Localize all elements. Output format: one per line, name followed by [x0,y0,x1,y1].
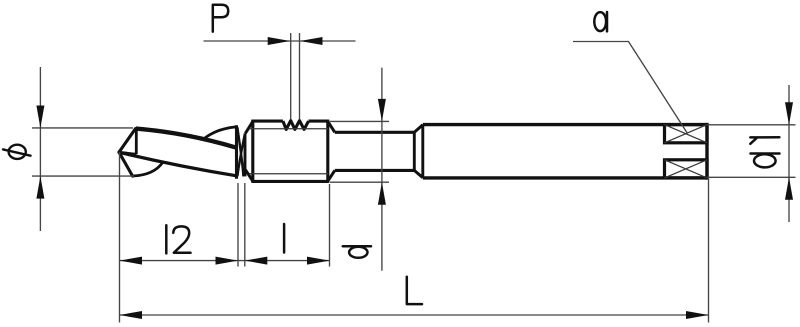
L dimension line [120,314,709,316]
label L [407,277,422,304]
d bottom arrow [378,182,386,205]
phi bottom arrow [36,176,44,199]
drill flute vertical line [135,130,138,155]
L right extension line [708,179,710,323]
L right arrow [686,311,709,319]
d top arrow [378,99,386,122]
l2 and l dimension line [120,260,330,262]
d1 top arrow [785,102,793,125]
thread top edge left segment [253,120,283,123]
neck groove right pinch curve [237,134,245,177]
label a [594,12,607,31]
d1 dimension line [788,85,790,222]
drill point lower edge [119,152,133,176]
thread right chamfer bottom [328,170,335,181]
l2 right arrow [216,257,239,265]
shank square drive top box [665,125,708,143]
d1 bottom extension line [707,176,796,178]
thread bottom edge [253,180,328,183]
thread left chamfer top [245,121,253,133]
neck bottom edge [335,169,415,172]
l2 right extension line [237,183,239,267]
thread left chamfer bottom [245,170,253,182]
d top extension line [330,120,389,122]
drill point flank curve [133,162,163,176]
neck groove right vertical [244,133,247,176]
drill point upper edge [119,129,136,153]
shank top edge [423,123,707,126]
l left arrow [245,257,267,265]
L left arrow [120,311,143,319]
shank bottom edge [423,176,707,179]
label d [343,246,371,258]
neck top edge [335,131,415,134]
d1 bottom arrow [785,177,793,200]
shank cone bottom [414,170,423,177]
d bottom extension line [330,181,389,183]
shank end vertical [705,125,708,178]
P dimension line [204,40,356,42]
thread right edge [326,121,329,181]
l right extension line [329,184,331,267]
thread root line bottom [250,173,329,175]
phi top arrow [36,106,44,129]
label P [213,5,228,32]
l left extension line [244,183,246,267]
l right arrow [307,257,330,265]
P left extension line [290,33,292,120]
shank cone vertical [421,125,424,178]
P right extension line [299,33,301,120]
phi dimension line [39,67,41,231]
P right arrow [300,37,323,45]
drill flute end vertical [235,127,238,177]
shank cone top [414,125,423,133]
bottom box diagonals [665,160,708,178]
label d1 [750,137,779,167]
drill flute bottom edge [119,152,237,176]
left extension line (tip) [119,152,121,323]
thread left edge [251,121,254,181]
a leader line [573,42,688,134]
neck end vertical [413,132,416,170]
d dimension line [381,68,383,271]
thread crest zigzag [283,121,309,130]
drill spiral flute edge [136,129,237,148]
label l2 [166,225,190,253]
thread top edge right segment [309,120,328,123]
neck groove left pinch curve [237,127,243,176]
thread root line top [250,128,329,130]
phi top extension line [32,127,133,129]
phi bottom extension line [32,175,134,177]
l2 left arrow [120,257,143,265]
drill chisel edge [119,152,136,154]
label l [283,224,286,253]
label phi (diameter symbol) [3,145,30,159]
d1 top extension line [707,124,796,126]
shank square drive bottom box [665,160,708,178]
P left arrow [268,37,291,45]
drill flute runout curve [204,127,237,139]
thread right chamfer top [328,121,335,132]
top box diagonals [665,125,708,143]
